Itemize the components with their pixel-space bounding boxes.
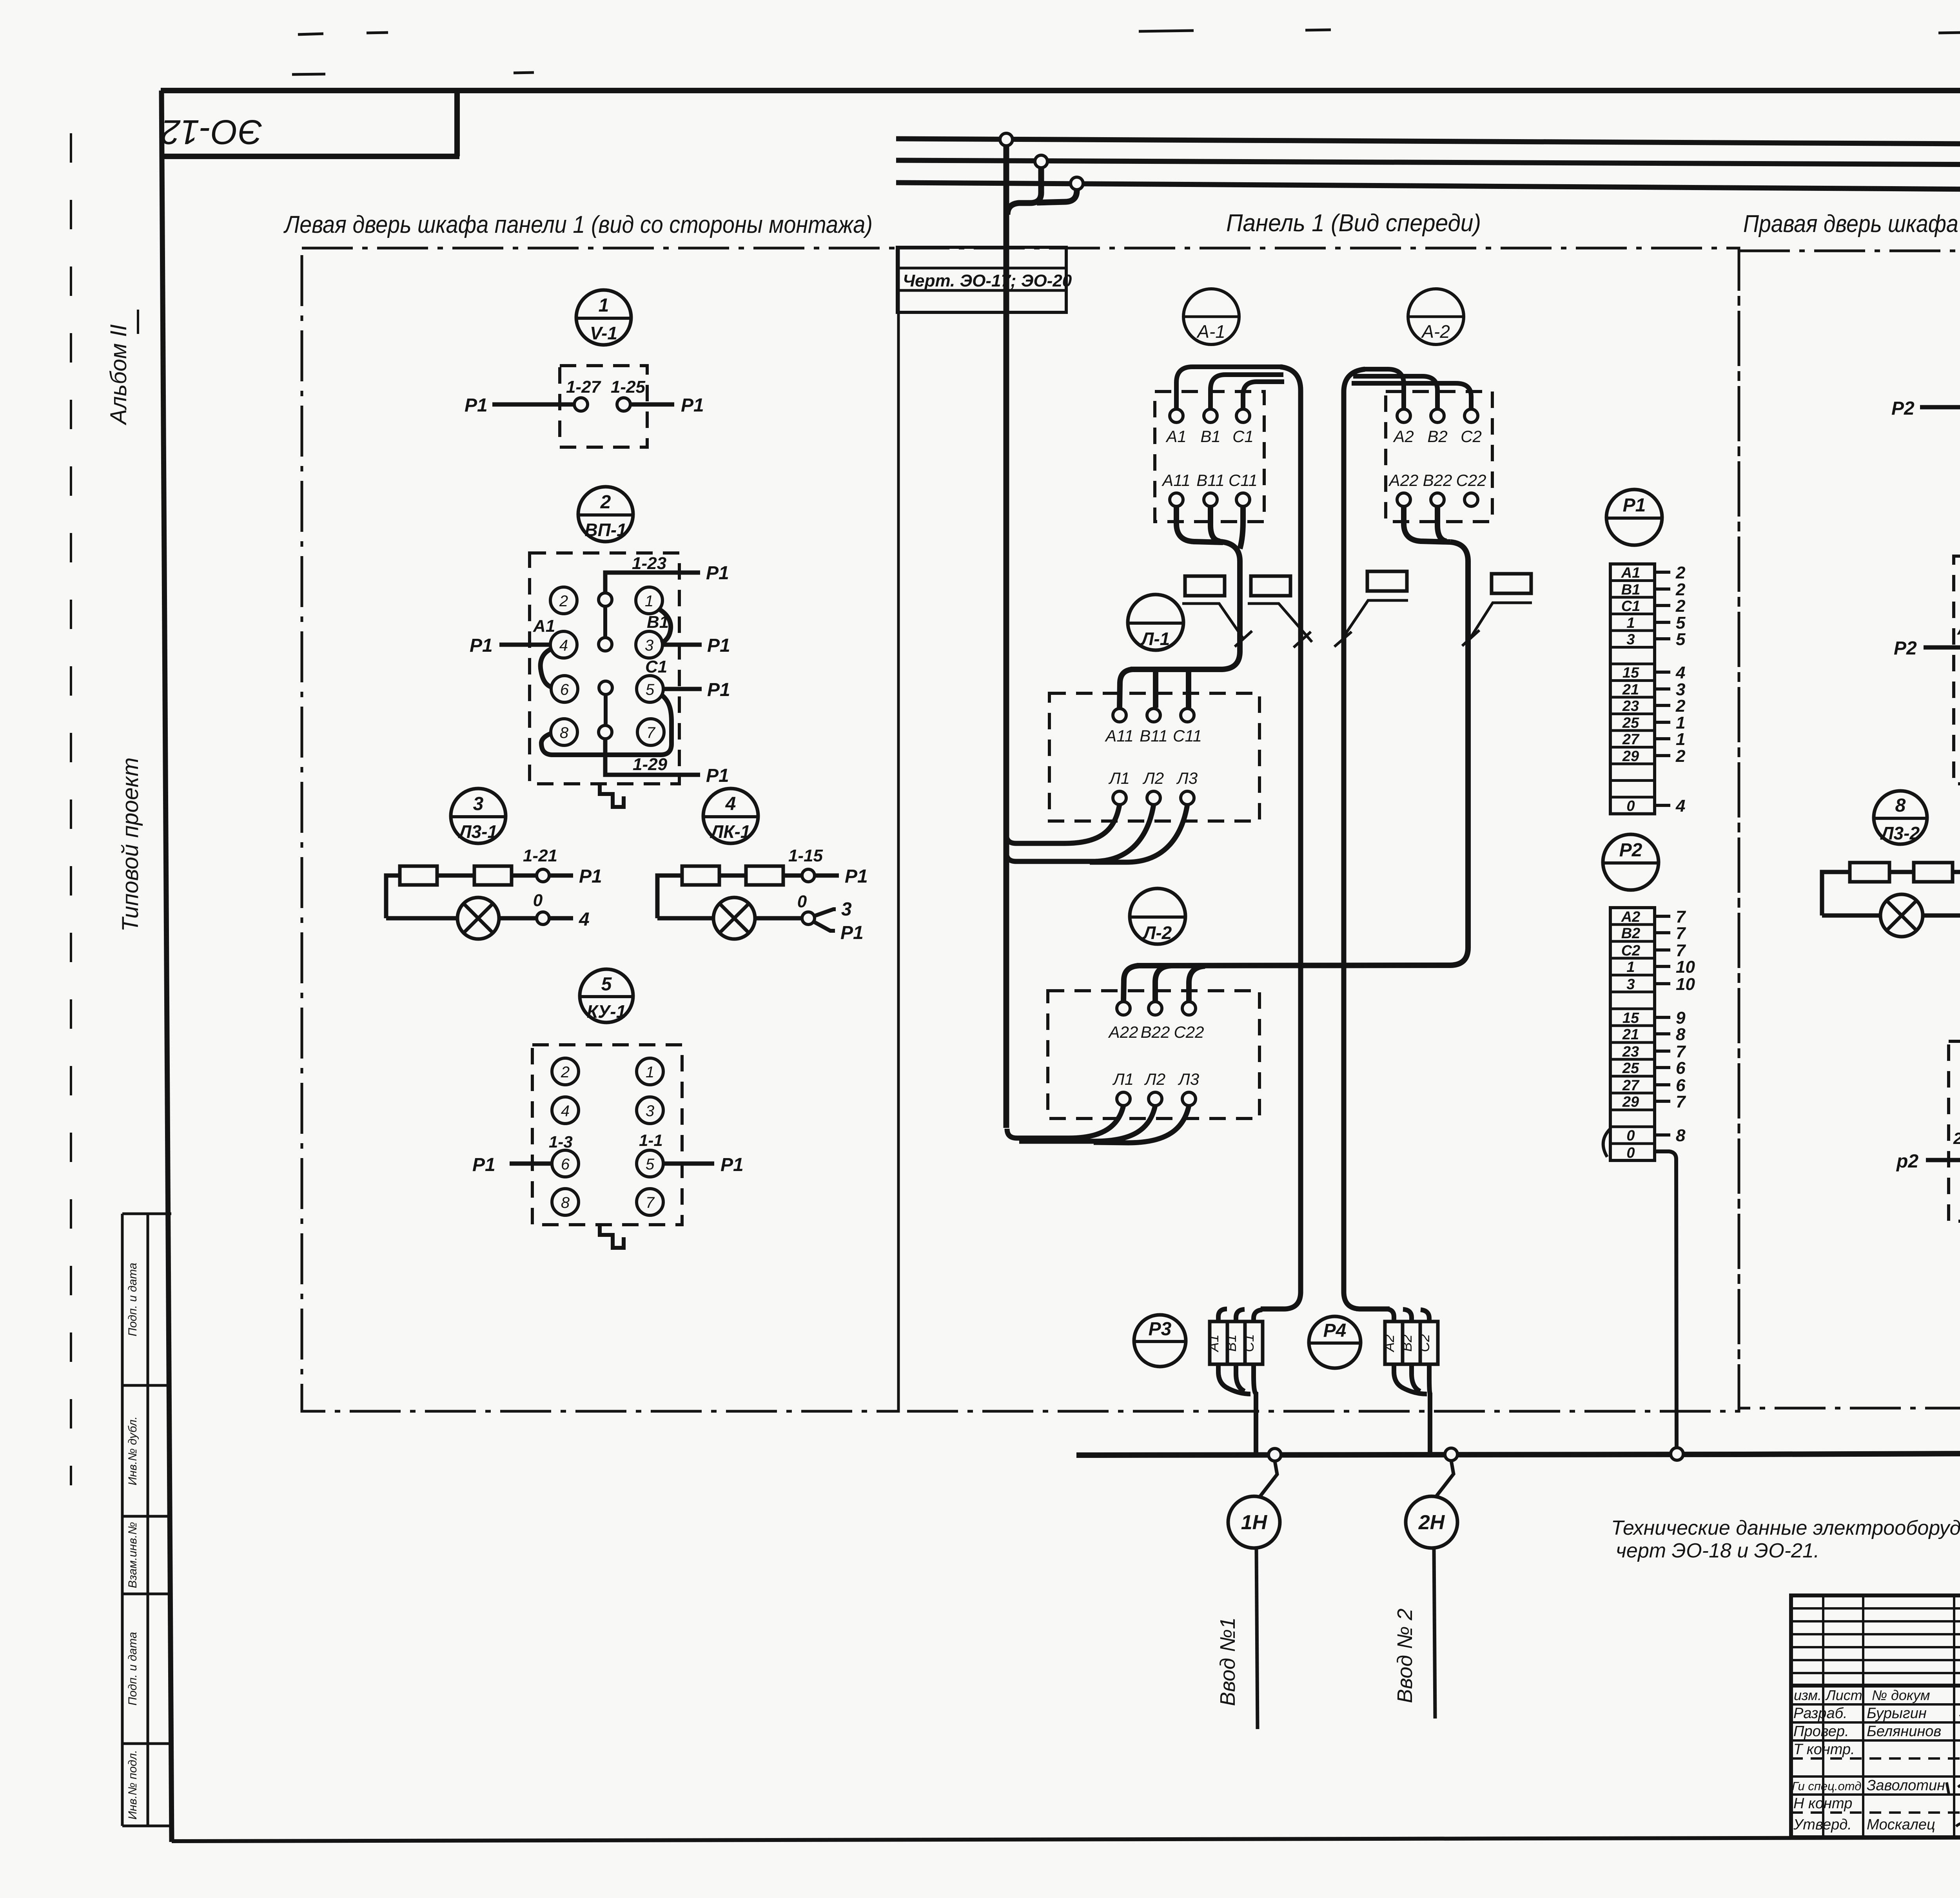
svg-text:21: 21 — [1622, 682, 1639, 698]
svg-text:Р1: Р1 — [720, 1155, 744, 1175]
wire P2 strip zero to null bus — [1655, 1151, 1677, 1450]
left stamp column table — [122, 1214, 171, 1826]
VP-1 numbered terminals — [550, 587, 664, 745]
relay P1 circle — [1606, 489, 1662, 545]
svg-text:Москалец: Москалец — [1867, 1816, 1935, 1833]
svg-text:А1: А1 — [1621, 565, 1641, 581]
svg-text:1-1: 1-1 — [639, 1131, 663, 1149]
svg-text:Утверд.: Утверд. — [1793, 1816, 1852, 1833]
svg-text:А1: А1 — [533, 616, 555, 636]
svg-text:Р3: Р3 — [1149, 1319, 1172, 1340]
VP-1 wire 1-23 — [605, 554, 729, 600]
relay P2 circle — [1603, 834, 1659, 890]
ammeter A-2 — [1408, 289, 1464, 344]
svg-text:25: 25 — [1622, 715, 1639, 731]
svg-text:5: 5 — [601, 974, 612, 995]
svg-text:4: 4 — [579, 909, 590, 930]
svg-text:Л-1: Л-1 — [1140, 629, 1170, 649]
svg-text:Л2: Л2 — [1144, 1070, 1165, 1088]
svg-text:1-27: 1-27 — [566, 377, 602, 397]
cable tag rectangle 3 — [1334, 571, 1408, 647]
svg-text:2Н: 2Н — [1418, 1511, 1445, 1534]
title block small grid — [1791, 1595, 1960, 1837]
center panel dash-dot box — [898, 248, 1739, 1411]
svg-text:изм.: изм. — [1794, 1687, 1822, 1703]
svg-text:23: 23 — [1622, 698, 1639, 714]
svg-text:Р1: Р1 — [681, 395, 704, 416]
svg-text:6: 6 — [1676, 1059, 1686, 1078]
key switch KU-1 terminal box — [532, 1045, 682, 1225]
svg-text:Заволотин: Заволотин — [1867, 1777, 1945, 1794]
svg-text:Левая дверь шкафа панели 1: Левая дверь шкафа панели 1 (вид со сторо… — [283, 211, 873, 238]
svg-text:черт ЭО-18 и ЭО-21.: черт ЭО-18 и ЭО-21. — [1616, 1539, 1819, 1562]
svg-text:Т контр.: Т контр. — [1793, 1741, 1855, 1758]
svg-text:1: 1 — [646, 1064, 654, 1081]
svg-text:Л3: Л3 — [1176, 769, 1198, 787]
svg-text:2: 2 — [1675, 596, 1686, 616]
svg-text:23: 23 — [1622, 1044, 1639, 1060]
key switch KU-2 terminal box — [1949, 1041, 1960, 1221]
title block signature rows — [1792, 1705, 1945, 1833]
svg-text:5: 5 — [646, 1156, 655, 1173]
P4 block bottom wires to bus — [1394, 1364, 1430, 1452]
stamp box EO-12 top-left — [161, 91, 459, 156]
null bus node for P2 zero — [1671, 1448, 1683, 1460]
svg-text:1Н: 1Н — [1241, 1511, 1268, 1534]
svg-text:7: 7 — [646, 724, 656, 741]
chert EO-17 EO-20 reference box — [897, 247, 1072, 312]
svg-text:27: 27 — [1622, 731, 1640, 748]
svg-text:5: 5 — [1676, 630, 1686, 649]
svg-text:Р1: Р1 — [579, 866, 602, 887]
L3-1 lamp — [386, 891, 590, 939]
svg-text:В22: В22 — [1423, 471, 1452, 489]
svg-text:Технические данные электрооб: Технические данные электрооборудования- — [1611, 1517, 1960, 1539]
title block header labels — [1794, 1687, 1960, 1703]
KU-2 wire labels 2-3 and 2-1 — [1953, 1128, 1960, 1148]
switch VP-1 circle — [578, 487, 633, 542]
svg-text:1-29: 1-29 — [633, 755, 668, 774]
relay P3 circle — [1134, 1315, 1186, 1367]
svg-text:Взам.инв.№: Взам.инв.№ — [126, 1522, 139, 1588]
P4 block top stubs — [1356, 1309, 1429, 1322]
VP-1 lead P1 into 4 — [470, 635, 550, 656]
bus junction node P1 — [1071, 177, 1083, 190]
VP-1 lead P1 from 5 — [664, 680, 730, 700]
null bus node for 1N — [1269, 1448, 1281, 1461]
svg-text:ЭО-12: ЭО-12 — [161, 113, 262, 152]
null bus (Shina nulevaya) — [1076, 1452, 1960, 1455]
switch VP-1 terminal box — [530, 553, 679, 784]
cable tag rectangle 1 — [1182, 576, 1252, 647]
svg-text:А2: А2 — [1381, 1334, 1397, 1352]
VP-1 jumper 1-3 — [660, 610, 671, 643]
svg-text:Бурыгин: Бурыгин — [1867, 1705, 1927, 1722]
svg-text:25: 25 — [1622, 1060, 1639, 1077]
svg-text:Инв.№ подл.: Инв.№ подл. — [126, 1750, 139, 1820]
input 1N circle — [1216, 1461, 1280, 1729]
svg-text:Черт. ЭО-17; ЭО-20: Черт. ЭО-17; ЭО-20 — [903, 271, 1072, 290]
svg-text:8: 8 — [1895, 795, 1906, 816]
wire bundle A-2 bottom to L-2 coil — [1123, 506, 1468, 1002]
svg-text:А-1: А-1 — [1196, 321, 1225, 342]
svg-text:Подп. и дата: Подп. и дата — [126, 1263, 139, 1336]
P4 fuse block A2 B2 C2 — [1381, 1322, 1438, 1364]
svg-text:В1: В1 — [1621, 582, 1641, 598]
bus junction node L2 — [1035, 155, 1047, 168]
svg-text:8: 8 — [1676, 1025, 1686, 1044]
svg-text:Альбом II: Альбом II — [106, 324, 131, 426]
svg-text:А-2: А-2 — [1421, 321, 1450, 342]
riser wire to P4 block — [1344, 369, 1390, 1309]
VP-2 phase labels — [1957, 615, 1960, 679]
svg-text:3: 3 — [645, 637, 653, 654]
L3-1 resistor chain — [386, 846, 602, 918]
LK-1 resistor chain — [657, 846, 868, 918]
svg-text:А1: А1 — [1165, 427, 1186, 446]
lamp group L3-1 circle — [451, 789, 506, 843]
left panel dash-dot box — [302, 248, 898, 1411]
voltmeter V-2 terminal box — [1891, 368, 1960, 450]
svg-text:А11: А11 — [1104, 727, 1134, 745]
svg-text:В2: В2 — [1399, 1334, 1415, 1352]
svg-text:27: 27 — [1622, 1077, 1640, 1094]
svg-text:3: 3 — [646, 1102, 654, 1120]
svg-text:Ги спец.отд: Ги спец.отд — [1792, 1779, 1861, 1793]
svg-text:0: 0 — [533, 891, 543, 910]
svg-text:0: 0 — [1626, 1145, 1635, 1161]
svg-text:Л1: Л1 — [1108, 769, 1130, 787]
svg-text:10: 10 — [1676, 975, 1695, 994]
cable tag rectangle 4 — [1462, 574, 1532, 646]
P2 strip hook mark — [1603, 1129, 1610, 1157]
svg-text:7: 7 — [1676, 1092, 1686, 1111]
svg-text:Р1: Р1 — [1623, 495, 1646, 516]
svg-text:Р2: Р2 — [1891, 398, 1915, 419]
top bus L2 (Zelenaya) — [896, 147, 1960, 179]
svg-text:№ докум: № докум — [1872, 1687, 1930, 1703]
svg-text:1: 1 — [645, 593, 653, 610]
svg-text:КУ-1: КУ-1 — [587, 1001, 626, 1022]
svg-text:С2: С2 — [1461, 427, 1482, 446]
svg-text:С1: С1 — [1621, 598, 1641, 615]
svg-text:С22: С22 — [1174, 1023, 1204, 1041]
svg-text:0: 0 — [1626, 798, 1635, 814]
wire bundle A-1 top to riser — [1176, 367, 1284, 409]
svg-text:1-23: 1-23 — [632, 554, 666, 573]
KU-1 key notch — [600, 1225, 624, 1248]
svg-text:Панель 1 (Вид спереди): Панель 1 (Вид спереди) — [1226, 210, 1481, 237]
svg-text:15: 15 — [1622, 665, 1639, 681]
svg-text:С11: С11 — [1229, 471, 1258, 489]
svg-text:С11: С11 — [1173, 727, 1202, 745]
relay P4 circle — [1309, 1316, 1361, 1368]
svg-text:2: 2 — [561, 1064, 570, 1081]
VP-1 jumper 4-6 — [541, 649, 552, 687]
svg-text:С2: С2 — [1416, 1334, 1432, 1352]
contactor L-2 circle — [1130, 888, 1185, 944]
svg-text:С1: С1 — [1232, 427, 1254, 446]
svg-text:1-15: 1-15 — [788, 846, 823, 865]
bus junction node L3 — [1000, 133, 1013, 146]
VP-1 contact column — [599, 593, 612, 739]
svg-text:А2: А2 — [1957, 619, 1960, 638]
VP-2 lead P2 into 4 — [1894, 638, 1960, 659]
svg-text:ЛК-1: ЛК-1 — [710, 821, 751, 842]
lamp group LK-1 circle — [703, 789, 758, 843]
cable tag rectangle 2 — [1248, 576, 1312, 647]
svg-text:Провер.: Провер. — [1793, 1723, 1849, 1740]
svg-text:Правая дверь шкафа панели 1: Правая дверь шкафа панели 1 (вид со стор… — [1743, 210, 1960, 237]
svg-text:Р1: Р1 — [472, 1155, 495, 1175]
svg-text:3: 3 — [473, 794, 484, 814]
svg-text:Р1: Р1 — [707, 635, 730, 656]
svg-text:2: 2 — [1675, 563, 1686, 582]
P3 block bottom wires to bus — [1218, 1364, 1256, 1452]
svg-text:3: 3 — [841, 899, 852, 920]
KU-1 lead P1 into 6 — [472, 1155, 552, 1175]
svg-text:С1: С1 — [1241, 1334, 1257, 1352]
L-1 line side wires to feeder — [1006, 805, 1187, 862]
svg-text:Р1: Р1 — [470, 635, 493, 656]
top bus L3 (Krasnaya) — [896, 120, 1960, 161]
svg-text:10: 10 — [1676, 957, 1695, 977]
VP-1 lead P1 from 3 — [663, 635, 730, 656]
svg-text:21: 21 — [1622, 1026, 1639, 1043]
svg-text:В11: В11 — [1196, 471, 1225, 489]
svg-text:Р1: Р1 — [465, 395, 488, 416]
svg-text:2-3: 2-3 — [1953, 1129, 1960, 1148]
svg-text:8: 8 — [560, 724, 569, 741]
svg-text:Л3: Л3 — [1178, 1070, 1199, 1088]
scan junk dashes top — [292, 30, 1960, 74]
svg-text:1: 1 — [599, 295, 609, 316]
svg-text:0: 0 — [797, 892, 807, 911]
svg-text:Типовой проект: Типовой проект — [118, 758, 143, 932]
svg-text:Р4: Р4 — [1323, 1320, 1347, 1341]
svg-text:В1: В1 — [1200, 427, 1220, 446]
KU-1 numbered terminals — [552, 1058, 663, 1215]
P3 fuse block A1 B1 C1 — [1205, 1322, 1263, 1364]
svg-text:Р1: Р1 — [707, 680, 730, 700]
svg-text:С1: С1 — [645, 657, 667, 676]
svg-text:0: 0 — [1626, 1128, 1635, 1144]
main feeder drop from buses — [1006, 140, 1077, 1128]
riser wire to P3 block — [1261, 367, 1301, 1309]
svg-text:Л3-2: Л3-2 — [1880, 823, 1920, 843]
svg-text:В1: В1 — [1223, 1334, 1239, 1352]
svg-text:Р1: Р1 — [845, 866, 868, 887]
svg-text:А22: А22 — [1108, 1023, 1138, 1041]
svg-text:29: 29 — [1622, 1094, 1639, 1110]
svg-text:Р2: Р2 — [1894, 638, 1917, 659]
KU-2 lead P2 into 6 — [1896, 1151, 1960, 1172]
ammeter A-1 — [1183, 289, 1239, 344]
svg-text:Лист: Лист — [1825, 1687, 1862, 1703]
L3-2 lamp — [1822, 888, 1960, 941]
voltmeter V-1 terminal box — [465, 366, 704, 447]
svg-text:6: 6 — [560, 681, 569, 698]
svg-text:С2: С2 — [1621, 943, 1641, 959]
VP-1 key notch — [600, 784, 624, 807]
svg-text:1-3: 1-3 — [549, 1133, 573, 1151]
svg-text:1: 1 — [1626, 959, 1635, 975]
svg-text:В22: В22 — [1141, 1023, 1170, 1041]
svg-text:Белянинов: Белянинов — [1867, 1723, 1941, 1740]
svg-text:А2: А2 — [1621, 909, 1641, 925]
null bus node for 2N — [1445, 1448, 1457, 1461]
svg-text:ВП-1: ВП-1 — [584, 520, 626, 540]
svg-text:Р2: Р2 — [1619, 840, 1642, 861]
A-2 terminal box — [1386, 392, 1492, 522]
svg-text:В11: В11 — [1140, 727, 1168, 745]
VP-1 phase labels — [533, 613, 669, 676]
VP-1 wire 1-29 — [605, 739, 729, 786]
svg-text:7: 7 — [1676, 924, 1686, 943]
svg-text:4: 4 — [559, 637, 568, 654]
svg-text:V-1: V-1 — [590, 323, 617, 343]
svg-text:4: 4 — [1675, 796, 1685, 816]
P3 block top stubs — [1218, 1309, 1262, 1322]
svg-text:15: 15 — [1622, 1010, 1639, 1026]
svg-text:4: 4 — [1675, 663, 1685, 682]
svg-text:Ввод №1: Ввод №1 — [1216, 1617, 1240, 1706]
svg-text:р2: р2 — [1896, 1151, 1918, 1172]
svg-text:А11: А11 — [1161, 471, 1191, 489]
KU-1 lead P1 from 5 — [663, 1155, 744, 1175]
wire bundle A-1 bottom to L-1 coil — [1120, 506, 1243, 708]
svg-text:5: 5 — [646, 681, 655, 698]
voltmeter V-1 circle — [576, 290, 631, 345]
top bus P1 380V (Zheltaya) — [896, 171, 1960, 202]
key switch KU-1 circle — [580, 969, 633, 1022]
svg-text:Р1: Р1 — [840, 923, 864, 943]
wire bundle A-2 top to riser — [1352, 369, 1471, 409]
svg-text:7: 7 — [646, 1194, 655, 1211]
right panel dash-dot box — [1739, 251, 1960, 1408]
svg-text:4: 4 — [561, 1102, 570, 1120]
KU-1 wire labels 1-3 and 1-1 — [549, 1131, 663, 1151]
LK-1 lamp — [657, 892, 864, 943]
A-1 terminal box — [1155, 392, 1264, 522]
L-2 line side wires to feeder — [1007, 1106, 1189, 1143]
svg-text:6: 6 — [561, 1156, 570, 1173]
terminal strip Р2 — [1610, 907, 1695, 1161]
input 2N circle — [1393, 1461, 1457, 1719]
svg-text:3: 3 — [1626, 976, 1635, 993]
svg-text:1: 1 — [1626, 615, 1635, 631]
svg-text:2: 2 — [1675, 696, 1686, 716]
svg-text:Л-2: Л-2 — [1142, 923, 1172, 943]
note tekhnicheskie dannye — [1611, 1517, 1960, 1562]
svg-text:Р1: Р1 — [706, 563, 729, 584]
svg-text:2: 2 — [559, 593, 568, 610]
svg-text:А2: А2 — [1392, 427, 1414, 446]
svg-text:4: 4 — [725, 794, 736, 814]
contactor L-2 terminal box — [1048, 991, 1259, 1118]
title block frame — [1791, 1595, 1960, 1837]
L3-2 resistor chain — [1822, 843, 1960, 915]
svg-text:Л3-1: Л3-1 — [458, 821, 497, 842]
svg-text:Л1: Л1 — [1112, 1070, 1134, 1088]
svg-text:1: 1 — [1676, 730, 1685, 749]
title block signatures scribbles — [1947, 1713, 1960, 1826]
svg-text:С22: С22 — [1456, 471, 1486, 489]
svg-text:Разраб.: Разраб. — [1793, 1705, 1847, 1722]
svg-text:Н контр: Н контр — [1793, 1795, 1852, 1812]
svg-text:8: 8 — [561, 1194, 570, 1211]
svg-text:3: 3 — [1626, 631, 1635, 648]
svg-text:8: 8 — [1676, 1126, 1686, 1145]
contactor L-1 circle — [1128, 595, 1183, 650]
switch VP-2 terminal box — [1954, 556, 1960, 784]
svg-text:1-21: 1-21 — [523, 846, 557, 865]
svg-text:1-25: 1-25 — [611, 377, 646, 397]
VP-1 jumper 5-8 — [541, 694, 671, 755]
svg-text:Р1: Р1 — [706, 765, 729, 786]
svg-text:Подп. и дата: Подп. и дата — [126, 1632, 139, 1706]
terminal strip Р1 — [1610, 563, 1686, 816]
svg-text:2: 2 — [1675, 747, 1686, 766]
svg-text:А22: А22 — [1388, 471, 1419, 489]
svg-text:Ввод № 2: Ввод № 2 — [1393, 1608, 1417, 1703]
svg-text:2: 2 — [600, 492, 611, 513]
svg-text:В2: В2 — [1427, 427, 1447, 446]
svg-text:А1: А1 — [1205, 1334, 1221, 1352]
contactor L-1 terminal box — [1049, 693, 1259, 821]
svg-text:29: 29 — [1622, 748, 1639, 765]
svg-text:В2: В2 — [1621, 925, 1641, 942]
svg-text:Л2: Л2 — [1142, 769, 1164, 787]
lamp group L3-2 circle — [1874, 791, 1927, 844]
svg-text:Инв.№ дубл.: Инв.№ дубл. — [126, 1416, 139, 1485]
